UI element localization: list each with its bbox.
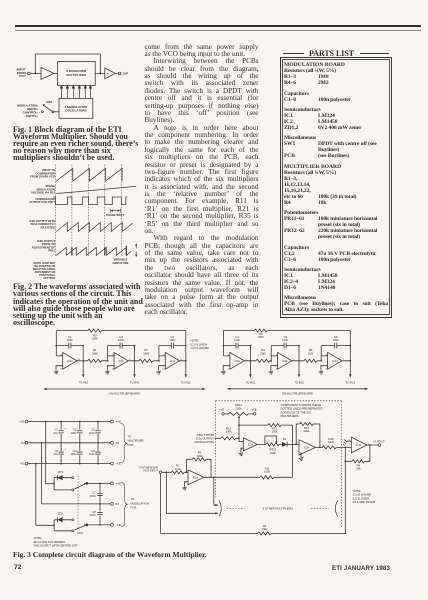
svg-text:PHASE SHIFT: PHASE SHIFT — [106, 213, 125, 217]
svg-text:3: 3 — [349, 451, 351, 453]
svg-text:100k: 100k — [175, 467, 182, 471]
svg-text:D1: D1 — [283, 437, 287, 441]
svg-text:–VE: –VE — [219, 408, 224, 412]
svg-text:+: + — [64, 426, 66, 430]
svg-text:2M2: 2M2 — [308, 351, 314, 355]
svg-text:OSCILLATORS: OSCILLATORS — [65, 109, 86, 113]
svg-text:IC1b: IC1b — [119, 359, 125, 363]
svg-text:100k: 100k — [236, 406, 243, 410]
svg-text:0V: 0V — [116, 441, 120, 445]
svg-text:100n: 100n — [169, 338, 176, 342]
svg-text:0V: 0V — [116, 502, 120, 506]
svg-text:IC2a: IC2a — [248, 443, 254, 447]
svg-text:D1-6 ARE 1N4148: D1-6 ARE 1N4148 — [353, 500, 376, 504]
svg-text:2M2: 2M2 — [260, 351, 266, 355]
svg-text:MULTIPLIERS: MULTIPLIERS — [281, 414, 299, 418]
svg-text:OUTPUT: OUTPUT — [373, 439, 385, 443]
svg-text:100k: 100k — [272, 430, 279, 434]
svg-text:3: 3 — [297, 451, 299, 453]
svg-text:IC1c: IC1c — [170, 359, 176, 363]
svg-text:PR12: PR12 — [48, 249, 55, 253]
svg-text:100n: 100n — [89, 452, 96, 456]
svg-text:AMPLITUDE: AMPLITUDE — [112, 261, 128, 265]
svg-text:SETTING): SETTING) — [43, 276, 55, 280]
svg-text:100n: 100n — [89, 431, 96, 435]
svg-text:+VE: +VE — [116, 482, 121, 486]
svg-text:47u: 47u — [53, 431, 58, 435]
svg-text:IC2b: IC2b — [304, 446, 310, 450]
svg-text:–VE: –VE — [19, 462, 24, 466]
svg-text:IC1d: IC1d — [332, 359, 338, 363]
svg-text:100n: 100n — [90, 494, 97, 498]
svg-text:O/P: O/P — [123, 72, 128, 76]
svg-text:1M8: 1M8 — [92, 337, 98, 341]
svg-text:SWITCH: SWITCH — [26, 114, 38, 118]
svg-text:TO R52: TO R52 — [246, 380, 256, 384]
svg-text:2M2: 2M2 — [258, 335, 264, 339]
svg-text:VOLTAGE VIA R12: VOLTAGE VIA R12 — [31, 191, 55, 195]
svg-text:VCO: VCO — [19, 74, 26, 78]
svg-text:OUTPUT IC2b PIN 7: OUTPUT IC2b PIN 7 — [29, 200, 55, 204]
svg-text:ON MULTIPLIER BOARD: ON MULTIPLIER BOARD — [282, 391, 314, 395]
svg-text:PCB: PCB — [131, 506, 137, 510]
svg-text:FROM SYNTH VCO: FROM SYNTH VCO — [30, 175, 56, 179]
svg-text:ZD1: ZD1 — [58, 470, 64, 474]
svg-text:3: 3 — [186, 482, 188, 484]
svg-text:+VE: +VE — [116, 420, 121, 424]
svg-text:SW1: SW1 — [46, 100, 53, 104]
svg-text:IC1a: IC1a — [67, 359, 73, 363]
svg-text:1: 1 — [317, 450, 319, 452]
svg-text:100n: 100n — [70, 452, 77, 456]
svg-text:VCO INPUT: VCO INPUT — [143, 469, 158, 473]
svg-text:+VE: +VE — [19, 420, 24, 424]
svg-text:(MODULATOR): (MODULATOR) — [195, 440, 214, 444]
svg-text:47u: 47u — [53, 452, 58, 456]
svg-text:100n: 100n — [234, 338, 241, 342]
svg-text:2: 2 — [297, 442, 299, 444]
svg-text:IC1a: IC1a — [193, 476, 199, 480]
svg-text:TO R42: TO R42 — [130, 380, 140, 384]
svg-text:TO R62: TO R62 — [78, 380, 88, 384]
svg-text:TO R32: TO R32 — [294, 380, 304, 384]
svg-text:100n: 100n — [67, 338, 74, 342]
svg-text:18k: 18k — [356, 467, 361, 471]
svg-text:100n: 100n — [90, 513, 97, 517]
svg-text:IC2b: IC2b — [282, 359, 288, 363]
svg-text:+: + — [64, 447, 66, 451]
svg-text:100n: 100n — [282, 338, 289, 342]
svg-text:0V: 0V — [21, 441, 25, 445]
svg-text:TO R22: TO R22 — [181, 380, 191, 384]
svg-text:SW1 IS DPDT WITH CENTRE OFF: SW1 IS DPDT WITH CENTRE OFF — [34, 544, 78, 548]
svg-text:ON MULTIPLIER BOARD: ON MULTIPLIER BOARD — [109, 392, 141, 396]
svg-text:+VE: +VE — [251, 408, 256, 412]
svg-text:100k: 100k — [261, 527, 268, 531]
svg-text:SW1: SW1 — [77, 531, 83, 535]
svg-text:100n: 100n — [333, 338, 340, 342]
svg-text:100k: 100k — [304, 429, 311, 433]
svg-text:–VE: –VE — [116, 462, 121, 466]
svg-text:5 OTHER MULTIPLIERS: 5 OTHER MULTIPLIERS — [263, 507, 294, 511]
svg-text:MULTIPLIERS: MULTIPLIERS — [66, 73, 86, 77]
svg-text:100k: 100k — [226, 430, 233, 434]
svg-text:100k: 100k — [328, 440, 335, 444]
svg-text:220k: 220k — [270, 451, 277, 455]
svg-text:IC1b: IC1b — [356, 443, 362, 447]
svg-text:100n: 100n — [70, 431, 77, 435]
svg-text:IC2a: IC2a — [235, 359, 241, 363]
svg-text:IC2 IS LM1458: IC2 IS LM1458 — [191, 346, 210, 350]
svg-text:–VE: –VE — [116, 523, 121, 527]
svg-text:100k: 100k — [264, 470, 271, 474]
svg-text:100k: 100k — [197, 454, 204, 458]
svg-text:ADJUSTED: ADJUSTED — [40, 225, 55, 229]
svg-text:100n: 100n — [118, 338, 125, 342]
svg-text:5: 5 — [241, 449, 243, 451]
svg-text:1M8: 1M8 — [143, 351, 149, 355]
svg-text:PCB: PCB — [128, 443, 134, 447]
svg-text:+: + — [107, 72, 109, 76]
svg-text:7: 7 — [259, 447, 261, 449]
svg-text:1M8: 1M8 — [92, 351, 98, 355]
svg-text:ZD2: ZD2 — [58, 511, 64, 515]
svg-text:TO R12: TO R12 — [346, 380, 356, 384]
